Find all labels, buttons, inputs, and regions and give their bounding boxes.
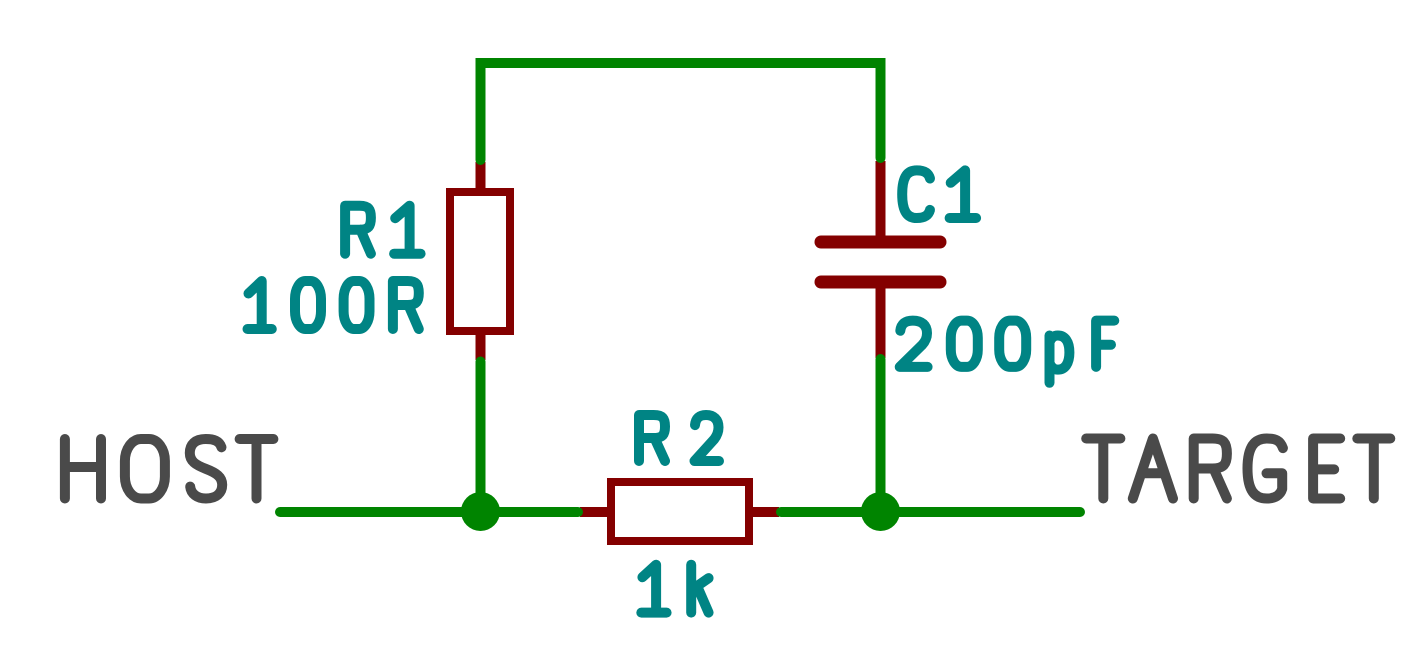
R1 pin 2 (bottom) bbox=[476, 323, 486, 360]
C1 top plate bbox=[821, 236, 940, 249]
capacitor C1 bbox=[821, 161, 940, 358]
C1 pin 1 (top) bbox=[876, 161, 886, 240]
C1 bottom plate bbox=[821, 276, 940, 289]
label R2 refdes bbox=[639, 415, 719, 461]
node B junction bbox=[861, 492, 900, 531]
label C1 refdes bbox=[902, 170, 976, 218]
label R1 refdes bbox=[345, 206, 421, 254]
wire R2 to node B to TARGET bbox=[781, 507, 1080, 517]
wire HOST to node A to R2 bbox=[280, 507, 578, 517]
label TARGET bbox=[1086, 439, 1390, 499]
R1 pin 1 (top) bbox=[476, 162, 486, 199]
wire from R1 pin 1 up, across, down to C1 pin 1 bbox=[481, 63, 881, 160]
R2 pin 1 (left) bbox=[580, 507, 619, 517]
wire C1 bottom to node B bbox=[876, 359, 886, 512]
label HOST bbox=[65, 439, 274, 499]
R2 body bbox=[611, 482, 749, 541]
R2 pin 2 (right) bbox=[741, 507, 779, 517]
resistor R1 bbox=[450, 162, 510, 360]
label R1 value 100R bbox=[248, 281, 419, 329]
label R2 value 1k bbox=[641, 565, 708, 613]
wire R1 bottom to node A bbox=[476, 362, 486, 513]
R1 body bbox=[450, 192, 510, 331]
label C1 value 200pF bbox=[900, 321, 1115, 383]
C1 pin 2 (bottom) bbox=[876, 284, 886, 358]
resistor R2 bbox=[580, 482, 779, 541]
node A junction bbox=[461, 492, 500, 531]
